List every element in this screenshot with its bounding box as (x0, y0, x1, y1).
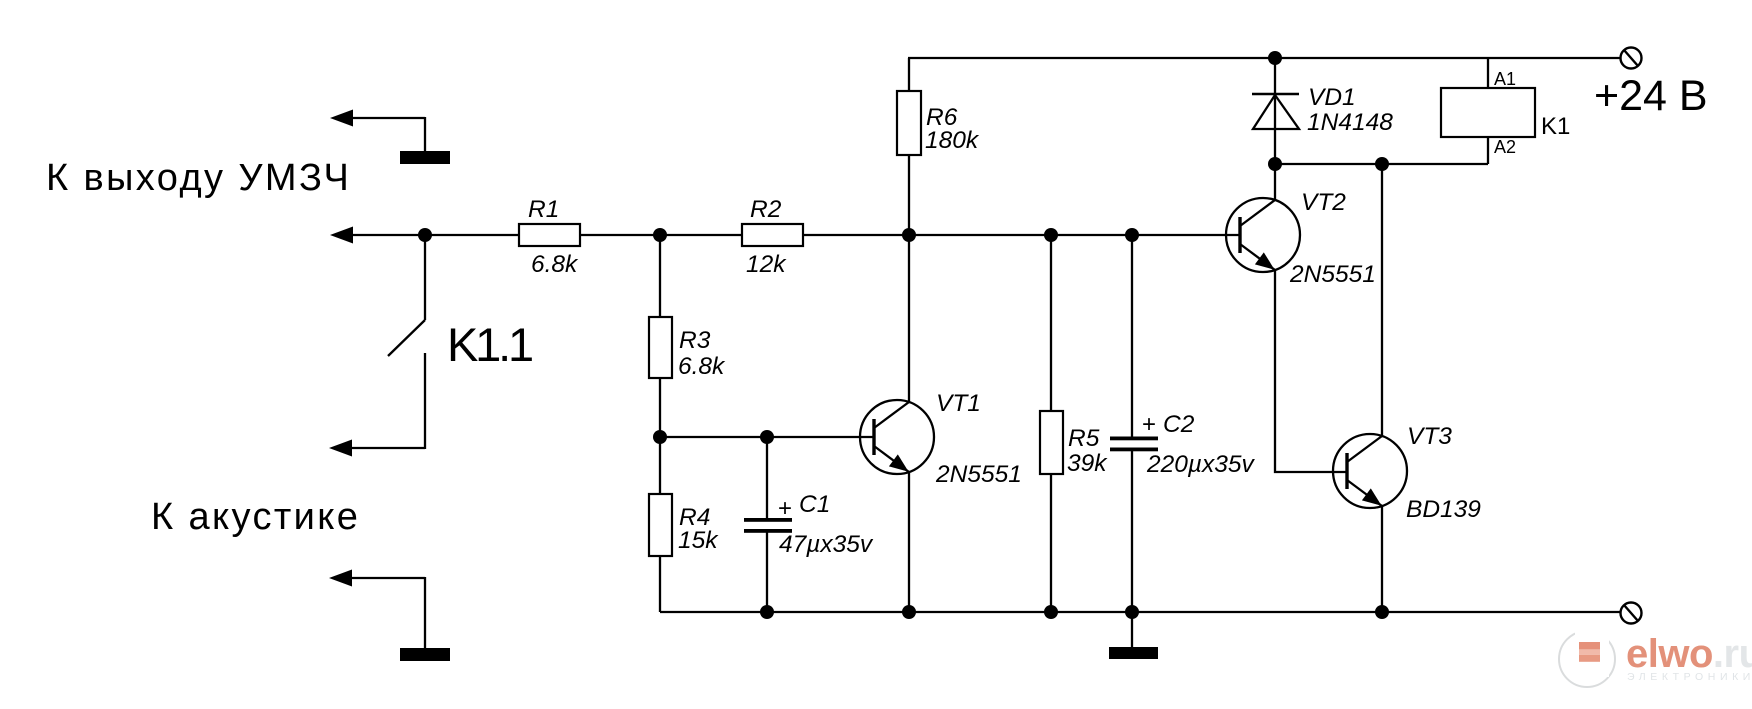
svg-text:6.8k: 6.8k (678, 353, 726, 380)
svg-text:R3: R3 (679, 327, 711, 354)
svg-text:A2: A2 (1494, 137, 1516, 157)
node A: R3 top junction (653, 228, 667, 242)
terminal arrow: UMZCH output top (330, 110, 425, 127)
relay coil K1 (1441, 58, 1535, 164)
switch K1.1 (350, 235, 425, 449)
wire: R4 column (659, 437, 661, 612)
resistor R5 (1040, 235, 1063, 612)
wire: R3 column (659, 235, 661, 437)
node: C1 bottom (760, 605, 774, 619)
resistor R3 (649, 317, 672, 378)
node: VT3 emitter bottom (1375, 605, 1389, 619)
terminal arrow: main wire left (330, 227, 425, 244)
svg-text:1N4148: 1N4148 (1307, 109, 1393, 136)
node: switch junction (418, 228, 432, 242)
svg-text:+: + (1142, 411, 1156, 438)
svg-text:6.8k: 6.8k (531, 251, 579, 278)
node: R5 bottom (1044, 605, 1058, 619)
wire: VT2 emitter to VT3 base (1275, 270, 1347, 472)
transistor VT3 BD139 (1333, 434, 1407, 508)
ground (1109, 612, 1158, 659)
capacitor C1 (744, 437, 792, 612)
terminal bottom-right (1621, 603, 1642, 624)
svg-text:R1: R1 (528, 196, 559, 223)
node: VD1 top junction (1268, 51, 1282, 65)
svg-text:C1: C1 (799, 491, 830, 518)
wire (424, 117, 426, 152)
node: C1 top junction (760, 430, 774, 444)
svg-text:47µx35v: 47µx35v (779, 531, 874, 558)
node: VT3 collector junction (1375, 157, 1389, 171)
wire: VT1 collector column (908, 235, 910, 402)
node: VT1 emitter bottom (902, 605, 916, 619)
node: ground junction (1125, 605, 1139, 619)
resistor R6 (897, 58, 921, 235)
capacitor C2 (1110, 235, 1158, 612)
contact pad bottom-left (400, 648, 450, 661)
elwo.ru watermark logo (1559, 629, 1752, 687)
resistor R2 (742, 224, 803, 246)
terminal arrow: speaker upper (329, 440, 352, 457)
resistor R1 (519, 224, 580, 246)
wire: VD1 to relay A2 (1275, 163, 1488, 165)
svg-text:VT3: VT3 (1407, 423, 1452, 450)
wire: VT1 emitter column (908, 471, 910, 612)
node: R3/R4 junction (653, 430, 667, 444)
svg-text:2N5551: 2N5551 (935, 461, 1022, 488)
svg-text:ЭЛЕКТРОНИКИ: ЭЛЕКТРОНИКИ (1627, 671, 1752, 683)
terminal +24V (1621, 48, 1642, 69)
node: C2 top junction (1125, 228, 1139, 242)
resistor R4 (649, 494, 672, 556)
svg-text:2N5551: 2N5551 (1289, 261, 1376, 288)
svg-text:39k: 39k (1067, 450, 1108, 477)
transistor VT1 2N5551 (860, 400, 934, 474)
wire: VT3 emitter column (1381, 505, 1383, 612)
svg-text:A1: A1 (1494, 69, 1516, 89)
wire: ground bottom rail (660, 611, 1621, 613)
svg-text:elwo.ru: elwo.ru (1626, 632, 1752, 676)
wire: +24V top rail (908, 57, 1621, 59)
wire: VT1 base row (660, 436, 874, 438)
svg-text:BD139: BD139 (1406, 496, 1481, 523)
svg-text:+24 В: +24 В (1594, 72, 1708, 120)
terminal arrow: speaker lower (329, 570, 425, 587)
svg-text:R5: R5 (1068, 425, 1100, 452)
svg-text:180k: 180k (925, 127, 980, 154)
svg-text:12k: 12k (746, 251, 787, 278)
svg-text:К акустике: К акустике (151, 496, 360, 538)
svg-text:VT1: VT1 (936, 390, 981, 417)
diode VD1 1N4148 (1252, 58, 1299, 164)
node: VD1 bottom junction (1268, 157, 1282, 171)
svg-text:K1: K1 (1541, 113, 1570, 140)
svg-text:К выходу УМЗЧ: К выходу УМЗЧ (46, 157, 351, 199)
svg-text:R2: R2 (750, 196, 782, 223)
svg-text:VD1: VD1 (1308, 84, 1356, 111)
wire: VT3 collector column (1381, 164, 1383, 436)
wire (424, 577, 426, 649)
transistor VT2 2N5551 (1226, 198, 1300, 272)
svg-text:VT2: VT2 (1301, 189, 1346, 216)
svg-text:K1.1: K1.1 (447, 318, 532, 371)
svg-text:+: + (778, 495, 792, 522)
node: R5 top junction (1044, 228, 1058, 242)
wire: VT2 collector (1274, 164, 1276, 200)
svg-text:C2: C2 (1163, 411, 1195, 438)
wire: main horizontal net (425, 234, 1240, 236)
svg-text:220µx35v: 220µx35v (1146, 451, 1255, 478)
svg-text:15k: 15k (678, 527, 719, 554)
contact pad top-left (400, 151, 450, 164)
node: R6/VT1 junction on main wire (902, 228, 916, 242)
